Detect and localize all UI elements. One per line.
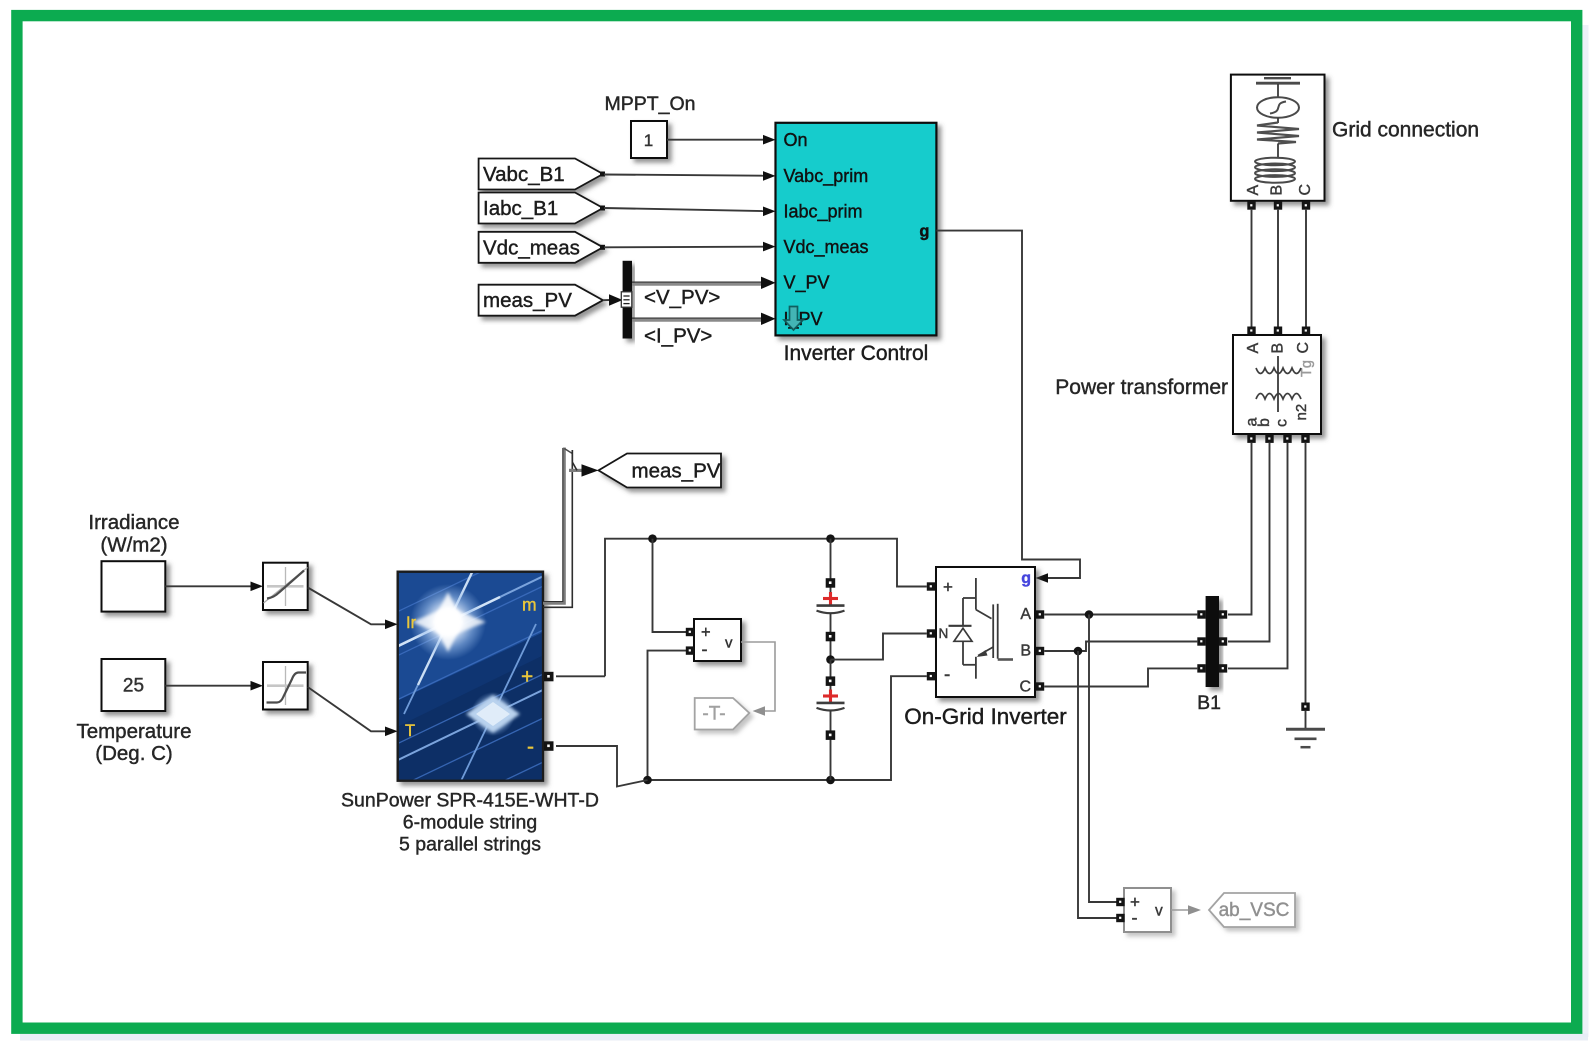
label Irradiance (W/m2) bbox=[88, 511, 179, 557]
svg-text:c: c bbox=[1274, 419, 1291, 427]
svg-text:ab_VSC: ab_VSC bbox=[1219, 900, 1290, 921]
svg-text:MPPT_On: MPPT_On bbox=[604, 93, 695, 115]
svg-text:Vdc_meas: Vdc_meas bbox=[483, 236, 580, 259]
wire VM1 v to -T- goto bbox=[741, 642, 775, 716]
svg-text:B: B bbox=[1020, 643, 1031, 660]
wire PV minus to bottom bus bbox=[556, 746, 648, 787]
bus B1 bbox=[1197, 596, 1227, 687]
wire 25 to saturation2 bbox=[165, 681, 263, 691]
svg-text:T: T bbox=[405, 722, 415, 740]
svg-text:Ir: Ir bbox=[406, 614, 417, 632]
svg-text:-T-: -T- bbox=[702, 704, 725, 725]
window shadow outside frame bbox=[1583, 25, 1589, 1037]
wire A tap to VM2 plus bbox=[1089, 615, 1117, 903]
svg-text:m: m bbox=[522, 595, 537, 615]
wire B tap to VM2 minus bbox=[1078, 651, 1117, 918]
AC source ellipse bbox=[1257, 97, 1299, 118]
svg-text:+: + bbox=[521, 666, 533, 689]
svg-text:Vabc_B1: Vabc_B1 bbox=[483, 163, 565, 186]
svg-text:25: 25 bbox=[123, 676, 144, 697]
svg-text:C: C bbox=[1295, 342, 1312, 354]
svg-text:B1: B1 bbox=[1197, 692, 1221, 714]
svg-text:+: + bbox=[943, 578, 953, 597]
svg-text:1: 1 bbox=[644, 131, 653, 150]
wire Iabc_B1 to Iabc_prim bbox=[604, 207, 776, 217]
svg-text:Iabc_prim: Iabc_prim bbox=[784, 202, 863, 223]
svg-text:n2: n2 bbox=[1293, 404, 1310, 421]
voltage measurement VM1 bbox=[686, 619, 741, 661]
wire saturation2 to PV T input bbox=[308, 687, 398, 736]
svg-text:On: On bbox=[784, 130, 808, 150]
svg-text:V_PV: V_PV bbox=[784, 273, 830, 294]
goto tag -T- (grey) bbox=[695, 698, 750, 730]
svg-text:SunPower SPR-415E-WHT-D: SunPower SPR-415E-WHT-D bbox=[341, 790, 599, 812]
subsystem Inverter Control bbox=[776, 123, 937, 336]
svg-text:<I_PV>: <I_PV> bbox=[644, 324, 712, 347]
wire transformer n2 to ground bbox=[1305, 443, 1307, 703]
transformer bottom port squares bbox=[1247, 435, 1309, 443]
DC link top bus wire bbox=[556, 675, 605, 677]
junction dot B bbox=[1074, 647, 1083, 656]
goto tag meas_PV bbox=[599, 454, 722, 488]
saturation block S1 bbox=[263, 563, 308, 610]
junction dot bottom bus / capacitor bbox=[826, 776, 835, 785]
voltage measurement VM2 (grey) bbox=[1116, 888, 1171, 932]
svg-text:(Deg. C): (Deg. C) bbox=[95, 742, 172, 765]
goto tag ab_VSC (grey) bbox=[1209, 893, 1295, 927]
constant block Irradiance (empty) bbox=[102, 561, 166, 611]
PV caption bbox=[341, 790, 599, 856]
IGBT + diode icon bbox=[949, 578, 1014, 679]
bus selector bbox=[621, 261, 632, 339]
svg-text:Irradiance: Irradiance bbox=[88, 511, 179, 534]
block Power transformer bbox=[1233, 335, 1321, 434]
from tag Vdc_meas bbox=[479, 232, 605, 263]
svg-text:-: - bbox=[702, 639, 708, 659]
capacitor C1 (top) bbox=[817, 539, 845, 660]
transformer top port squares bbox=[1247, 327, 1310, 335]
svg-text:B: B bbox=[1269, 185, 1286, 196]
left port squares bbox=[927, 582, 935, 590]
svg-text:-: - bbox=[944, 665, 950, 686]
svg-text:meas_PV: meas_PV bbox=[632, 460, 721, 483]
wire VM2 v to ab_VSC goto bbox=[1171, 905, 1201, 915]
svg-text:Inverter Control: Inverter Control bbox=[784, 342, 929, 365]
saturation block S2 bbox=[263, 662, 308, 710]
Grid connection port squares bbox=[1247, 201, 1310, 209]
ground symbol bbox=[1286, 729, 1325, 747]
wire VM1 plus input bbox=[653, 539, 691, 632]
capacitor C2 (bottom) bbox=[817, 660, 845, 780]
svg-text:5 parallel strings: 5 parallel strings bbox=[399, 834, 541, 856]
svg-text:N: N bbox=[939, 626, 949, 641]
PV array block (SunPower) bbox=[376, 530, 580, 840]
svg-text:A: A bbox=[1020, 606, 1031, 623]
constant block 1 (MPPT_On) bbox=[631, 121, 667, 158]
wire saturation1 to PV Ir input bbox=[308, 588, 398, 630]
wire transformer a to B1 bbox=[1228, 443, 1252, 615]
svg-text:Temperature: Temperature bbox=[76, 720, 191, 743]
svg-text:v: v bbox=[725, 635, 733, 652]
wire capacitor midpoint to inverter N bbox=[831, 634, 927, 660]
wire constant1 to On bbox=[667, 135, 776, 145]
svg-text:-: - bbox=[1132, 908, 1138, 928]
svg-text:B: B bbox=[1270, 343, 1287, 354]
wire VM1 minus input bbox=[648, 651, 691, 780]
svg-text:Grid connection: Grid connection bbox=[1332, 119, 1479, 142]
block Grid connection bbox=[1231, 75, 1325, 201]
wire bus selector out2 (I_PV) bbox=[632, 313, 776, 325]
from tag meas_PV bbox=[479, 285, 603, 316]
svg-text:<V_PV>: <V_PV> bbox=[644, 286, 720, 309]
from tag Vabc_B1 bbox=[479, 159, 605, 190]
wire transformer c to B1 bbox=[1228, 443, 1288, 668]
wire irradiance to saturation1 bbox=[165, 582, 263, 592]
wire bus selector out1 (V_PV) bbox=[632, 277, 776, 289]
wire g output to On-Grid Inverter g input bbox=[936, 231, 1080, 583]
ground (rotated) bbox=[1264, 77, 1291, 79]
PV + port square bbox=[544, 672, 554, 682]
svg-text:-: - bbox=[527, 736, 534, 759]
svg-text:v: v bbox=[1155, 903, 1163, 920]
junction dot top bus / VM1 bbox=[648, 534, 657, 543]
svg-text:On-Grid Inverter: On-Grid Inverter bbox=[904, 704, 1067, 729]
svg-text:Power transformer: Power transformer bbox=[1055, 376, 1228, 399]
inductor (rotated coil) bbox=[1255, 158, 1295, 166]
wire Vdc_meas to Vdc_meas port bbox=[604, 242, 776, 252]
from tag Iabc_B1 bbox=[479, 193, 605, 224]
svg-text:Vdc_meas: Vdc_meas bbox=[784, 237, 869, 258]
wire inverter C to B1 bbox=[1044, 668, 1197, 686]
resistor (rotated zigzag) bbox=[1257, 123, 1299, 144]
junction dot A bbox=[1085, 610, 1094, 619]
svg-text:(W/m2): (W/m2) bbox=[100, 534, 167, 557]
wire transformer b to B1 bbox=[1228, 443, 1270, 642]
svg-text:A: A bbox=[1245, 343, 1262, 354]
PV - port square bbox=[544, 741, 554, 751]
svg-text:Iabc_B1: Iabc_B1 bbox=[483, 197, 558, 220]
wire inverter A to B1 bbox=[1044, 614, 1197, 616]
svg-text:meas_PV: meas_PV bbox=[483, 289, 572, 312]
wires grid to transformer A B C bbox=[1251, 210, 1253, 327]
block On-Grid Inverter bbox=[927, 567, 1044, 697]
svg-text:C: C bbox=[1297, 184, 1314, 196]
constant block 25 bbox=[102, 659, 166, 711]
junction dot capacitor midpoint bbox=[826, 655, 835, 664]
svg-text:g: g bbox=[1021, 570, 1031, 587]
wire Vabc_B1 to Vabc_prim bbox=[604, 171, 776, 181]
svg-text:b: b bbox=[1256, 418, 1273, 427]
svg-text:g: g bbox=[919, 222, 929, 240]
svg-text:C: C bbox=[1019, 679, 1031, 696]
I_PV event icon (down arrow) bbox=[784, 307, 803, 331]
svg-text:6-module string: 6-module string bbox=[403, 812, 537, 834]
wire meas_PV to bus selector bbox=[603, 294, 623, 306]
junction dot top bus / capacitor bbox=[826, 534, 835, 543]
label Temperature (Deg. C) bbox=[76, 720, 191, 765]
wire PV m output (bus, doubled) to meas_PV goto bbox=[543, 448, 599, 608]
svg-text:Vabc_prim: Vabc_prim bbox=[784, 166, 869, 187]
junction dot bottom bus left bbox=[643, 776, 652, 785]
svg-text:A: A bbox=[1245, 185, 1262, 196]
wire inverter B to B1 bbox=[1044, 642, 1197, 652]
DC link bottom bus wire bbox=[648, 676, 927, 780]
right port squares bbox=[1036, 610, 1044, 618]
